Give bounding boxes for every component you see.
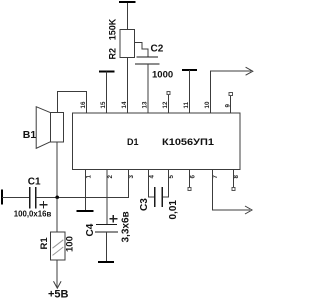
wire: pin 7 down and right (output) (212, 169, 250, 210)
svg-text:1: 1 (85, 175, 92, 179)
wire: pin 2 down to C4 (106, 169, 108, 224)
svg-text:3: 3 (128, 175, 135, 179)
svg-text:C1: C1 (28, 176, 41, 187)
svg-text:9: 9 (224, 104, 231, 108)
pin 12 terminal square (167, 91, 170, 94)
wire: pin 1 down to ground (85, 169, 87, 210)
arrowhead right (bottom output) (245, 206, 252, 214)
wire: terminal to C1 (2, 196, 30, 198)
svg-text:100,0x16в: 100,0x16в (14, 209, 52, 219)
capacitor C3 right plate (161, 187, 163, 207)
arrowhead right (top output) (246, 67, 253, 75)
capacitor C1 left plate (29, 187, 31, 209)
wire: speaker bottom to junction (56, 142, 58, 198)
wire: R2 side tap to C2 (135, 43, 148, 57)
svg-text:16: 16 (80, 101, 87, 108)
pin 8 stub (232, 169, 234, 187)
wire: pin 15 up to bar (105, 72, 107, 114)
svg-text:14: 14 (121, 101, 128, 108)
pin 9 stub (230, 95, 232, 113)
svg-text:+5В: +5В (48, 289, 69, 300)
svg-text:100: 100 (64, 236, 75, 252)
resistor R1 (50, 232, 65, 260)
wire: junction down to R1 (56, 197, 58, 232)
svg-text:C4: C4 (85, 223, 96, 236)
wire: pin 11 up to bar (189, 70, 191, 113)
svg-text:4: 4 (148, 175, 155, 179)
svg-text:R1: R1 (39, 237, 50, 250)
watermark diagonals in R1 (53, 240, 64, 256)
pin 6 stub (189, 169, 191, 187)
speaker B1 horn (36, 107, 50, 149)
svg-text:150K: 150K (107, 18, 117, 40)
plus sign C1 (40, 201, 48, 209)
speaker B1 box (50, 113, 63, 142)
junction dot (55, 196, 59, 200)
pin 12 stub (168, 94, 170, 113)
capacitor C3 left plate (154, 187, 156, 207)
svg-text:13: 13 (142, 101, 149, 108)
svg-text:В1: В1 (23, 129, 37, 141)
capacitor C2 top plate (137, 56, 159, 58)
plus sign C4 (109, 215, 117, 223)
wire: C1 to pin3 bus (36, 196, 129, 198)
svg-text:7: 7 (212, 175, 219, 179)
wire: pin 10 up and right (output) (211, 71, 251, 113)
svg-text:2: 2 (107, 175, 114, 179)
capacitor C2 bottom plate (135, 63, 160, 65)
svg-text:0,01: 0,01 (168, 200, 179, 220)
capacitor C4 bottom plate (95, 231, 118, 233)
wire: pin 5 down to C3 right (163, 169, 169, 197)
wire: C4 bottom to ground (106, 232, 108, 261)
svg-text:12: 12 (162, 101, 169, 108)
svg-text:15: 15 (100, 101, 107, 108)
power rail bar top (119, 1, 135, 3)
wire: pin 4 down to C3 left (149, 169, 154, 197)
arrowhead down (+5V) (54, 281, 62, 288)
svg-text:8: 8 (233, 175, 240, 179)
ground bar below pin 1 (76, 210, 93, 212)
wire: speaker top to pin 16 (58, 92, 87, 114)
IC D1 box (73, 113, 240, 170)
svg-text:6: 6 (189, 175, 196, 179)
input terminal bar left (1, 189, 3, 204)
pin 8 terminal square (232, 187, 235, 190)
wire: C2 bottom to pin 13 (147, 64, 149, 113)
capacitor C1 right plate (35, 187, 37, 209)
svg-text:5: 5 (168, 175, 175, 179)
ground bar below C4 (98, 261, 114, 263)
ground bar above pin 11 (182, 69, 197, 71)
svg-text:11: 11 (183, 101, 190, 108)
wire: pin 3 down to bus (127, 169, 129, 197)
svg-text:1000: 1000 (152, 70, 173, 81)
svg-text:10: 10 (204, 101, 211, 108)
wire: rail to R2 top (126, 3, 128, 30)
svg-text:C2: C2 (151, 44, 164, 55)
svg-text:D1: D1 (127, 137, 139, 147)
svg-text:R2: R2 (107, 48, 117, 60)
ground bar above pin 15 (99, 70, 114, 72)
resistor R2 (120, 30, 135, 58)
svg-text:3,3x6в: 3,3x6в (121, 211, 132, 242)
capacitor C4 top plate (96, 224, 117, 226)
svg-text:К1056УП1: К1056УП1 (162, 137, 215, 148)
pin 6 terminal square (188, 187, 191, 190)
wire: R2 bottom to pin 14 (126, 58, 128, 113)
pin 9 terminal square (229, 92, 232, 95)
svg-text:C3: C3 (139, 198, 150, 211)
wire: R1 bottom to +5V arrow (56, 260, 58, 287)
